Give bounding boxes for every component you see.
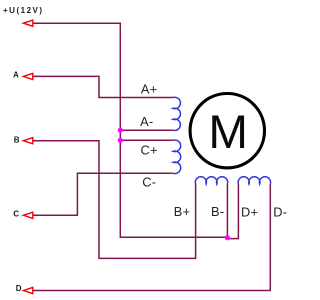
svg-text:M: M (208, 106, 248, 159)
motor circle M1 (190, 94, 264, 168)
svg-text:D: D (16, 284, 22, 293)
wire B- lead from junction up to coil (226, 184, 228, 237)
svg-text:D-: D- (273, 204, 287, 219)
wire A- lead from +U junction to coil (120, 129, 173, 131)
svg-text:B: B (14, 135, 20, 144)
junction dot C+/+U (118, 138, 123, 143)
svg-text:C-: C- (142, 175, 156, 190)
svg-text:B-: B- (211, 204, 224, 219)
wire A net: from arrow A to coil A+ top lead (33, 76, 173, 97)
svg-text:B+: B+ (174, 204, 191, 219)
terminal arrow +U (23, 20, 32, 26)
svg-text:A: A (13, 71, 19, 80)
svg-text:A-: A- (140, 114, 153, 129)
junction dot B-/D+/+U (225, 235, 230, 240)
terminal arrow A (23, 73, 32, 79)
terminal arrow D (23, 287, 32, 293)
terminal arrow B (23, 138, 32, 144)
wire D net: coil D- side down and left to D arrow (33, 184, 270, 291)
svg-text:A+: A+ (141, 82, 158, 97)
inductor coil A (blue winding) (173, 97, 180, 130)
svg-text:C+: C+ (141, 142, 158, 157)
wire C net: coil C- lead left and down to C arrow (33, 173, 173, 215)
svg-text:D+: D+ (241, 204, 258, 219)
wire +U net: top run, vertical, bottom run to junction (33, 23, 228, 237)
junction dot A-/+U (118, 128, 123, 133)
svg-text:+U(12V): +U(12V) (3, 6, 44, 15)
inductor coil B (blue winding) (195, 177, 227, 184)
inductor coil D (blue winding) (238, 177, 270, 184)
wire C+ lead from +U junction to coil (120, 139, 173, 141)
terminal arrow C (23, 212, 32, 218)
inductor coil C (blue winding) (173, 140, 180, 174)
wire D+ lead from junction right and up to coil (227, 184, 238, 239)
wire B net: from arrow B down and right, up to coil B+ side (33, 141, 196, 259)
svg-text:C: C (13, 210, 19, 219)
